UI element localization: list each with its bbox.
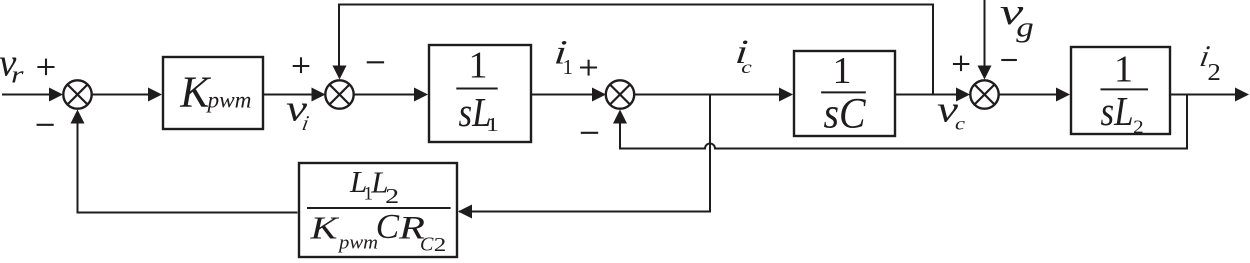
svg-text:2: 2 — [385, 184, 399, 208]
svg-text:pwm: pwm — [205, 87, 251, 112]
svg-text:2: 2 — [1133, 118, 1144, 138]
svg-text:C: C — [420, 234, 434, 256]
svg-text:pwm: pwm — [337, 233, 378, 254]
svg-text:K: K — [309, 210, 339, 246]
svg-text:1: 1 — [833, 50, 852, 92]
svg-text:2: 2 — [1207, 59, 1221, 86]
svg-text:1: 1 — [1114, 49, 1133, 91]
svg-text:sC: sC — [824, 91, 867, 138]
svg-text:c: c — [955, 113, 965, 133]
svg-text:r: r — [11, 63, 24, 89]
svg-text:1: 1 — [486, 114, 499, 136]
svg-text:g: g — [1016, 11, 1034, 43]
svg-text:C: C — [376, 207, 400, 246]
svg-text:c: c — [741, 57, 752, 77]
svg-text:2: 2 — [434, 234, 447, 256]
svg-text:1: 1 — [469, 45, 488, 87]
svg-text:1: 1 — [563, 55, 574, 79]
svg-text:sL: sL — [1101, 88, 1134, 134]
